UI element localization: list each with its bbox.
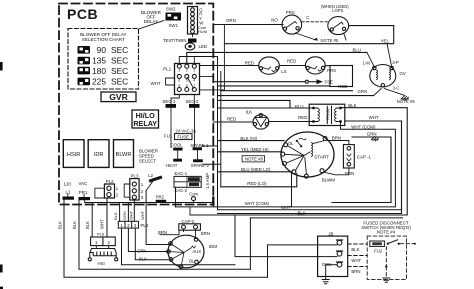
svg-text:VAC: VAC <box>79 181 88 186</box>
svg-text:180: 180 <box>92 66 106 76</box>
svg-text:COOL: COOL <box>171 142 184 147</box>
svg-text:3-P: 3-P <box>392 60 399 65</box>
svg-text:WHT (COM): WHT (COM) <box>351 125 376 130</box>
svg-text:5: 5 <box>186 79 188 83</box>
svg-text:8: 8 <box>186 84 188 88</box>
svg-text:PL2: PL2 <box>106 179 114 184</box>
svg-text:BRN: BRN <box>201 231 210 236</box>
svg-text:TEST/TWIN: TEST/TWIN <box>163 38 187 43</box>
svg-text:FUSE: FUSE <box>177 134 189 139</box>
svg-text:PL3: PL3 <box>131 174 139 179</box>
svg-text:GRN: GRN <box>358 89 368 94</box>
svg-text:BLWM: BLWM <box>322 178 336 183</box>
svg-text:WHT: WHT <box>151 81 161 86</box>
svg-text:SW2: SW2 <box>166 7 176 12</box>
svg-text:120: 120 <box>64 182 72 187</box>
svg-text:BLK (HI): BLK (HI) <box>240 136 257 141</box>
svg-text:2: 2 <box>186 69 188 73</box>
svg-text:GRN: GRN <box>122 211 127 220</box>
svg-text:HUM: HUM <box>198 29 207 34</box>
svg-text:GV: GV <box>399 71 405 76</box>
svg-text:LGPS: LGPS <box>332 8 343 13</box>
svg-text:225: 225 <box>92 77 106 87</box>
svg-text:IDR: IDR <box>94 152 104 158</box>
svg-text:4: 4 <box>193 79 195 83</box>
svg-text:RED: RED <box>245 60 254 65</box>
svg-text:C: C <box>306 15 309 20</box>
svg-text:YEL: YEL <box>381 39 390 44</box>
svg-text:HEAT: HEAT <box>166 163 178 168</box>
svg-text:RED (LO): RED (LO) <box>247 181 267 186</box>
svg-text:ORN: ORN <box>226 18 236 23</box>
svg-text:LED: LED <box>199 44 208 49</box>
svg-text:6: 6 <box>178 79 180 83</box>
svg-text:SEC: SEC <box>111 45 128 55</box>
svg-text:BLK: BLK <box>139 256 147 261</box>
svg-text:AUX: AUX <box>192 249 201 254</box>
svg-text:BLU: BLU <box>353 48 362 53</box>
svg-text:1-M: 1-M <box>363 61 371 66</box>
svg-text:WHT: WHT <box>140 210 145 220</box>
svg-text:SW1: SW1 <box>169 23 179 28</box>
svg-text:Com: Com <box>189 191 198 196</box>
svg-text:SELECTION CHART: SELECTION CHART <box>82 37 125 42</box>
svg-text:9: 9 <box>178 84 180 88</box>
svg-text:BLK: BLK <box>298 210 306 215</box>
svg-text:135: 135 <box>92 56 106 66</box>
svg-text:RELAY: RELAY <box>133 119 157 128</box>
svg-text:CAP -1: CAP -1 <box>357 154 372 159</box>
svg-text:FRS: FRS <box>327 68 336 73</box>
svg-text:7: 7 <box>193 84 195 88</box>
svg-text:WHT: WHT <box>281 205 291 210</box>
svg-text:GRN: GRN <box>367 132 377 137</box>
svg-text:START: START <box>314 154 329 159</box>
svg-text:HSI: HSI <box>98 261 105 266</box>
svg-text:BRN: BRN <box>332 136 341 141</box>
svg-text:OL: OL <box>189 258 195 263</box>
svg-text:WHT: WHT <box>369 115 379 120</box>
svg-text:SEC: SEC <box>111 66 128 76</box>
svg-text:SEC: SEC <box>111 56 128 66</box>
svg-text:2: 2 <box>127 223 130 228</box>
svg-text:L1: L1 <box>66 189 71 194</box>
svg-text:GRN: GRN <box>322 262 331 267</box>
svg-text:3: 3 <box>134 223 137 228</box>
svg-text:BLK: BLK <box>351 247 359 252</box>
svg-text:SEC-2: SEC-2 <box>186 99 199 104</box>
svg-text:BLK: BLK <box>58 221 63 229</box>
svg-text:NOTE #5: NOTE #5 <box>321 38 340 43</box>
svg-text:2-C: 2-C <box>393 85 400 90</box>
svg-text:NO: NO <box>271 17 278 22</box>
svg-text:BLK: BLK <box>85 221 90 229</box>
svg-text:WHT (COM): WHT (COM) <box>245 201 270 206</box>
svg-text:BLU: BLU <box>295 104 304 109</box>
svg-text:NOTE #8: NOTE #8 <box>245 157 264 162</box>
svg-text:NOTE #4: NOTE #4 <box>377 229 396 234</box>
svg-text:SELECT: SELECT <box>139 159 156 164</box>
svg-text:1: 1 <box>120 223 123 228</box>
svg-text:PL5: PL5 <box>97 231 105 236</box>
svg-text:CAP-2: CAP-2 <box>182 219 195 224</box>
svg-text:FU1: FU1 <box>164 133 173 138</box>
svg-text:RED: RED <box>298 115 307 120</box>
svg-text:EAC-2: EAC-2 <box>175 188 188 193</box>
svg-text:SPARE-1: SPARE-1 <box>190 143 209 148</box>
svg-text:PCB: PCB <box>67 6 98 22</box>
svg-text:SEC: SEC <box>111 77 128 87</box>
svg-text:RED: RED <box>287 58 296 63</box>
svg-text:24 VAC-3A: 24 VAC-3A <box>176 129 197 134</box>
svg-text:FU2: FU2 <box>374 248 383 253</box>
svg-text:ILK: ILK <box>246 110 253 115</box>
svg-text:BLK: BLK <box>348 103 356 108</box>
svg-text:HSIR: HSIR <box>67 152 80 158</box>
svg-text:BRN: BRN <box>158 230 167 235</box>
svg-text:GVR: GVR <box>109 92 128 102</box>
svg-text:BLK: BLK <box>113 212 118 220</box>
svg-text:BLU (MED LO): BLU (MED LO) <box>241 167 271 172</box>
svg-text:YEL (MED HI): YEL (MED HI) <box>241 147 269 152</box>
svg-text:IDM: IDM <box>209 244 218 249</box>
svg-text:BRN: BRN <box>351 269 360 274</box>
svg-text:BLWR: BLWR <box>116 152 132 158</box>
svg-text:DELAY: DELAY <box>144 19 159 24</box>
svg-text:SEC-1: SEC-1 <box>163 99 176 104</box>
svg-text:BRN: BRN <box>345 171 354 176</box>
svg-text:PL1: PL1 <box>163 67 172 72</box>
svg-text:LS: LS <box>281 69 286 74</box>
svg-text:RED: RED <box>338 84 347 89</box>
svg-text:JB: JB <box>328 231 333 236</box>
svg-text:TRAN: TRAN <box>326 109 331 121</box>
svg-text:PL4: PL4 <box>141 223 149 228</box>
svg-text:WHT: WHT <box>128 210 133 220</box>
svg-text:GRN: GRN <box>137 248 146 253</box>
svg-text:PRS: PRS <box>286 10 295 15</box>
svg-text:WHT: WHT <box>351 258 361 263</box>
svg-text:SPARE-2: SPARE-2 <box>191 163 210 168</box>
svg-text:OL: OL <box>288 141 294 146</box>
svg-text:1: 1 <box>193 69 195 73</box>
svg-text:NOTE #6: NOTE #6 <box>397 99 416 104</box>
svg-text:L2: L2 <box>148 173 153 178</box>
svg-text:PR2: PR2 <box>156 195 165 200</box>
svg-text:3: 3 <box>178 69 180 73</box>
svg-text:FSE: FSE <box>325 80 334 85</box>
svg-text:PR1: PR1 <box>79 190 88 195</box>
svg-text:BLK: BLK <box>72 221 77 229</box>
svg-text:EAC-1: EAC-1 <box>175 171 188 176</box>
svg-text:WHT: WHT <box>100 219 105 229</box>
svg-text:RED: RED <box>227 116 236 121</box>
svg-text:1.5 AMP: 1.5 AMP <box>205 173 210 189</box>
svg-text:90: 90 <box>97 45 107 55</box>
